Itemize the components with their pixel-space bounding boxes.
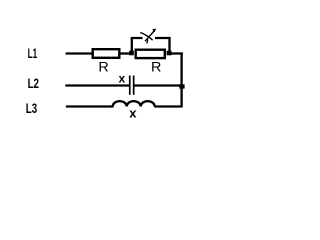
- svg-text:R: R: [151, 58, 161, 74]
- svg-text:L3: L3: [26, 101, 38, 116]
- svg-text:R: R: [98, 58, 108, 74]
- svg-text:x: x: [129, 106, 137, 121]
- svg-text:x: x: [119, 72, 126, 86]
- svg-text:L2: L2: [28, 76, 39, 91]
- svg-text:L1: L1: [28, 46, 38, 61]
